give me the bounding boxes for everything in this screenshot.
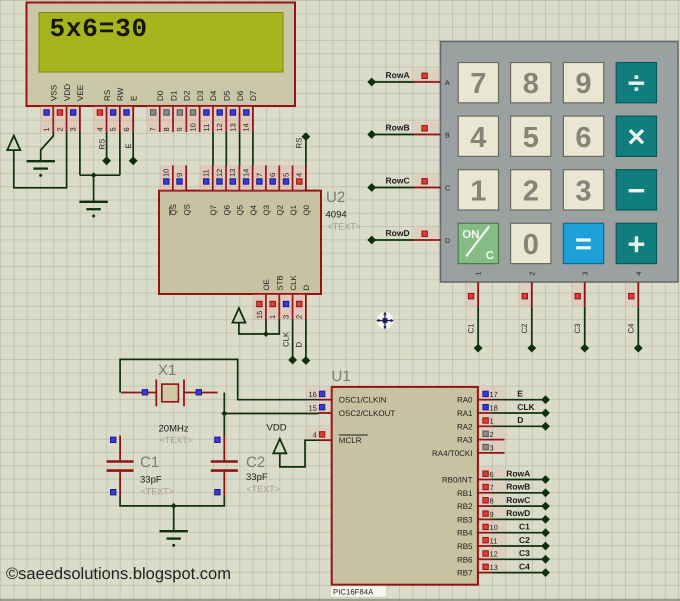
wire junction to ground [173, 506, 175, 531]
wire RS pin4 stub [106, 132, 108, 159]
U1 pin 10 RB4 (right) [457, 520, 505, 538]
wire E pin6 stub [132, 132, 134, 159]
LCD pin 4 RS [94, 89, 112, 132]
keypad column label 3 [582, 272, 589, 276]
wire net C1 from pin 10 [491, 532, 545, 534]
svg-text:8: 8 [162, 127, 171, 131]
sheet border bottom [0, 599, 680, 601]
keypad button × [616, 116, 656, 156]
svg-text:RA1: RA1 [457, 409, 473, 418]
node CLK terminal [541, 409, 550, 418]
svg-text:11: 11 [202, 124, 211, 132]
svg-text:5: 5 [523, 122, 539, 154]
label E net [124, 143, 133, 148]
U1 pin 15 OSC2/CLKOUT (left) [306, 400, 396, 418]
svg-text:VEE: VEE [76, 84, 85, 101]
wire LCD data to U2 at x=226.3 [225, 132, 227, 166]
svg-text:<TEXT>: <TEXT> [247, 484, 281, 494]
node RowD terminal [367, 236, 376, 245]
label C1 [467, 324, 476, 334]
crystal X1 [121, 380, 218, 407]
wire net RowC from pin 8 [491, 505, 545, 507]
U1 pin 16 OSC1/CLKIN (left) [306, 387, 387, 405]
U1 pin 9 RB3 (right) [457, 506, 505, 524]
wire net RowC [372, 187, 414, 189]
wire net C3 from pin 12 [491, 558, 545, 560]
svg-text:RB2: RB2 [457, 502, 473, 511]
C2 pin state squares [215, 437, 220, 442]
U2 pin 9 QS (top) [173, 165, 191, 216]
svg-text:RA3: RA3 [457, 436, 473, 445]
svg-text:QS: QS [182, 204, 191, 215]
label C2 [520, 324, 529, 334]
keypad button 8 [511, 63, 551, 103]
svg-text:5: 5 [281, 173, 290, 177]
wire net RowD [372, 239, 414, 241]
svg-text:C1: C1 [467, 324, 476, 334]
svg-text:RS: RS [295, 138, 304, 149]
ground for caps [160, 530, 188, 532]
svg-text:1: 1 [470, 175, 486, 207]
svg-text:Q3: Q3 [262, 205, 271, 215]
LCD pin 12 D5 [213, 90, 231, 132]
svg-text:OE: OE [262, 279, 271, 290]
junction ground bus [91, 172, 97, 178]
svg-text:D5: D5 [223, 90, 232, 101]
origin marker [376, 312, 393, 329]
svg-text:VDD: VDD [267, 423, 287, 434]
svg-text:12: 12 [215, 169, 224, 177]
svg-text:4094: 4094 [326, 210, 347, 221]
svg-text:7: 7 [255, 173, 264, 177]
svg-text:=: = [575, 229, 592, 261]
svg-text:2: 2 [529, 272, 536, 276]
svg-text:C3: C3 [573, 324, 582, 334]
wire net C2 [531, 307, 533, 348]
U1 pin 11 RB5 (right) [457, 533, 505, 551]
junction OE/STB [263, 331, 269, 337]
svg-text:MCLR: MCLR [339, 436, 362, 445]
svg-text:Q2: Q2 [276, 205, 285, 215]
svg-text:CLK: CLK [517, 402, 535, 412]
svg-text:1: 1 [490, 417, 494, 426]
svg-text:D0: D0 [156, 90, 165, 101]
LCD screen [39, 13, 283, 73]
svg-text:D: D [302, 285, 311, 291]
svg-text:<TEXT>: <TEXT> [160, 435, 194, 445]
svg-text:4: 4 [95, 127, 104, 131]
svg-text:1: 1 [476, 272, 483, 276]
svg-text:0: 0 [523, 229, 539, 261]
svg-text:6: 6 [575, 122, 591, 154]
svg-text:17: 17 [490, 390, 498, 399]
svg-text:4: 4 [636, 272, 643, 276]
keypad button = [563, 223, 603, 263]
keypad pin row RowC [414, 175, 441, 188]
wire junction to ground [93, 175, 95, 202]
svg-text:5x6=30: 5x6=30 [50, 14, 148, 44]
label PIC16F84A [331, 586, 387, 597]
svg-text:C3: C3 [519, 548, 530, 558]
svg-text:D7: D7 [249, 90, 258, 101]
keypad button ON/C [458, 223, 498, 263]
node C1 terminal [541, 528, 550, 537]
U2 pin 3 CLK (bottom) [280, 275, 298, 320]
label D net [295, 342, 304, 348]
svg-text:1: 1 [42, 127, 51, 131]
svg-text:15: 15 [308, 403, 316, 412]
keypad button 0 [511, 223, 551, 263]
node D terminal [541, 422, 550, 431]
svg-text:14: 14 [242, 123, 251, 131]
LCD pin 2 VDD [54, 84, 72, 132]
svg-text:−: − [627, 173, 645, 208]
wire VSS pin1 to ground [41, 132, 54, 161]
wire crystal left to OSC1 (top route) [120, 359, 318, 399]
wire net RowD from pin 9 [491, 518, 545, 520]
keypad column label 4 [636, 272, 643, 276]
U2 pin 7 Q3 (top) [253, 165, 271, 216]
svg-text:RB7: RB7 [457, 569, 473, 578]
svg-text:3: 3 [281, 315, 290, 319]
svg-text:13: 13 [228, 123, 237, 131]
wire LCD data to U2 at x=252.9 [252, 132, 254, 166]
svg-text:10: 10 [162, 169, 171, 177]
label RS net at U2 [295, 138, 304, 149]
wire VEE pin3 down [79, 132, 81, 175]
svg-text:C4: C4 [519, 561, 530, 571]
node C4 terminal [634, 344, 643, 353]
svg-text:C: C [445, 186, 450, 193]
svg-text:C1: C1 [140, 454, 159, 471]
LCD pin 9 D2 [173, 90, 191, 132]
node RowB terminal [541, 488, 550, 497]
svg-text:CLK: CLK [289, 275, 298, 291]
node D terminal [302, 356, 311, 365]
junction crystal right / OSC2 [221, 411, 227, 417]
wire net D from pin 1 [491, 425, 545, 427]
svg-text:D: D [517, 415, 523, 425]
svg-text:©saeedsolutions.blogspot.com: ©saeedsolutions.blogspot.com [6, 565, 231, 583]
svg-text:9: 9 [175, 127, 184, 131]
wire net C4 [637, 307, 639, 348]
keypad button 6 [563, 116, 603, 156]
wire U2 CLK down [292, 320, 294, 358]
svg-text:3: 3 [490, 443, 494, 452]
keypad pin row RowD [414, 227, 441, 240]
svg-text:QS: QS [169, 204, 178, 215]
svg-text:RowA: RowA [386, 70, 410, 80]
svg-text:E: E [517, 389, 523, 399]
wire net CLK from pin 18 [491, 412, 545, 414]
svg-text:D6: D6 [236, 90, 245, 101]
svg-text:11: 11 [490, 536, 498, 545]
svg-text:ON: ON [462, 229, 479, 241]
wire LCD data to U2 at x=239.6 [239, 132, 241, 166]
U1 pin 13 RB7 (right) [457, 560, 505, 578]
node RowD terminal [541, 515, 550, 524]
svg-text:CLK: CLK [282, 331, 291, 347]
svg-text:RB1: RB1 [457, 489, 473, 498]
svg-text:Q1: Q1 [289, 205, 298, 215]
svg-text:4: 4 [295, 173, 304, 177]
keypad button 2 [511, 170, 551, 210]
svg-text:RB0/INT: RB0/INT [442, 476, 473, 485]
label RS net [97, 139, 106, 150]
LCD pin 6 E [120, 95, 138, 132]
keypad button − [616, 170, 656, 210]
label CLK net [282, 331, 291, 347]
C1 pin state squares [111, 437, 116, 442]
keypad column label 2 [529, 272, 536, 276]
svg-text:20MHz: 20MHz [159, 424, 189, 435]
svg-text:RS: RS [103, 89, 112, 101]
svg-text:RowA: RowA [506, 468, 530, 478]
U1 pin 2 RA3 (right) [457, 427, 505, 445]
svg-text:C: C [486, 250, 494, 262]
svg-text:B: B [445, 133, 450, 140]
svg-text:D1: D1 [169, 90, 178, 101]
node RowA terminal [367, 78, 376, 87]
wire net C3 [584, 307, 586, 348]
svg-text:Q5: Q5 [236, 204, 245, 215]
svg-text:VSS: VSS [50, 84, 59, 101]
svg-text:RA0: RA0 [457, 396, 473, 405]
svg-text:A: A [445, 80, 450, 87]
keypad button 1 [458, 170, 498, 210]
wire U2 Q0 to RS terminal [305, 139, 307, 166]
svg-text:OSC2/CLKOUT: OSC2/CLKOUT [339, 409, 396, 418]
keypad button 4 [458, 116, 498, 156]
keypad button + [616, 223, 656, 263]
node C2 terminal [541, 542, 550, 551]
LCD pin 10 D3 [187, 90, 205, 132]
svg-text:9: 9 [490, 510, 494, 519]
U1 pin 4 MCLR (left) [306, 427, 368, 445]
LCD pin 1 VSS [40, 84, 58, 132]
U1 pin 1 RA2 (right) [457, 413, 505, 431]
ground for VEE/RW [79, 201, 107, 203]
svg-text:RB3: RB3 [457, 515, 473, 524]
node C3 terminal [541, 555, 550, 564]
microcontroller U1 body [332, 387, 478, 585]
svg-text:Q0: Q0 [302, 204, 311, 215]
keypad pin column C4 [625, 283, 638, 307]
wire net C2 from pin 11 [491, 545, 545, 547]
svg-text:OSC1/CLKIN: OSC1/CLKIN [339, 396, 387, 405]
U2 pin 15 OE (bottom) [253, 279, 271, 319]
svg-text:1: 1 [268, 315, 277, 319]
svg-text:2: 2 [55, 127, 64, 131]
svg-text:X1: X1 [158, 362, 176, 379]
U2 pin 4 Q0 (top) [293, 165, 311, 216]
svg-text:10: 10 [189, 123, 198, 131]
U1 pin 18 RA1 (right) [457, 400, 505, 418]
svg-text:7: 7 [490, 483, 494, 492]
LCD module LCD1 body [27, 3, 296, 107]
svg-text:RowC: RowC [386, 176, 410, 186]
keypad pin column C2 [519, 283, 532, 307]
keypad button ÷ [616, 63, 656, 103]
svg-text:33pF: 33pF [246, 472, 268, 483]
svg-text:D2: D2 [183, 90, 192, 101]
svg-text:RowB: RowB [386, 123, 410, 133]
keypad pin column C1 [465, 283, 478, 307]
wire VDD pin2 to power arrow [14, 132, 67, 188]
svg-text:13: 13 [490, 563, 498, 572]
U2 pin 12 Q6 (top) [213, 165, 231, 216]
svg-text:10: 10 [490, 523, 498, 532]
svg-text:13: 13 [228, 169, 237, 177]
svg-text:3: 3 [582, 272, 589, 276]
LCD pin 11 D4 [200, 90, 218, 132]
wire net E from pin 17 [491, 399, 545, 401]
wire crystal right down [223, 393, 225, 436]
node RS terminal at U2 [302, 132, 311, 141]
svg-text:12: 12 [490, 550, 498, 559]
keypad column label 1 [476, 272, 483, 276]
LCD pin 14 D7 [240, 90, 258, 132]
keypad pin row RowA [414, 69, 441, 82]
svg-text:RS: RS [97, 139, 106, 150]
LCD pin 8 D1 [160, 90, 178, 132]
wire OE down [265, 320, 267, 335]
svg-text:U2: U2 [326, 189, 345, 206]
svg-text:RB4: RB4 [457, 529, 473, 538]
svg-text:2: 2 [523, 175, 539, 207]
svg-text:RW: RW [116, 87, 125, 101]
wire OE/STB to power [239, 320, 279, 335]
svg-text:RowC: RowC [506, 495, 530, 505]
label C4 [627, 323, 636, 334]
svg-text:4: 4 [470, 122, 486, 154]
svg-text:D: D [445, 238, 450, 245]
svg-text:RA4/T0CKI: RA4/T0CKI [432, 449, 472, 458]
keypad button 5 [511, 116, 551, 156]
LCD pin 7 D0 [147, 90, 165, 132]
svg-text:11: 11 [202, 169, 211, 177]
svg-text:7: 7 [149, 127, 158, 131]
svg-text:6: 6 [122, 127, 131, 131]
svg-text:3: 3 [575, 175, 591, 207]
node RowC terminal [367, 183, 376, 192]
svg-text:16: 16 [308, 390, 316, 399]
U1 pin 7 RB1 (right) [457, 480, 505, 498]
svg-text:D: D [295, 342, 304, 348]
svg-text:8: 8 [490, 497, 494, 506]
svg-text:5: 5 [109, 127, 118, 131]
keypad button 3 [563, 170, 603, 210]
node RowC terminal [541, 502, 550, 511]
wire U2 D down [305, 320, 307, 359]
svg-text:C2: C2 [520, 324, 529, 334]
svg-text:7: 7 [470, 68, 486, 100]
ground for VSS [27, 160, 55, 162]
U2 pin 11 Q7 (top) [200, 165, 218, 216]
svg-text:×: × [627, 119, 645, 154]
svg-text:Q4: Q4 [249, 204, 258, 215]
svg-text:C4: C4 [627, 323, 636, 334]
U2 pin 5 Q1 (top) [280, 165, 298, 216]
U2 pin 1 STB (bottom) [266, 275, 284, 319]
svg-text:14: 14 [242, 169, 251, 177]
wire net C1 [477, 307, 479, 348]
U1 pin 6 RB0/INT (right) [442, 467, 505, 485]
capacitor C2 [211, 436, 238, 497]
svg-text:8: 8 [523, 68, 539, 100]
keypad button 7 [458, 63, 498, 103]
svg-text:U1: U1 [332, 368, 351, 385]
wire RW pin5 down [119, 132, 121, 175]
svg-text:RowD: RowD [386, 228, 410, 238]
svg-text:D4: D4 [209, 90, 218, 101]
node RowA terminal [541, 475, 550, 484]
U2 pin 10 QS (top) [160, 165, 178, 216]
svg-text:VDD: VDD [63, 84, 72, 101]
U1 pin 17 RA0 (right) [457, 387, 505, 405]
U1 pin 3 RA4/T0CKI (right) [432, 440, 505, 458]
svg-text:RA2: RA2 [457, 422, 473, 431]
svg-text:18: 18 [490, 403, 498, 412]
U1 pin 12 RB6 (right) [457, 546, 505, 564]
svg-text:<TEXT>: <TEXT> [328, 222, 362, 232]
svg-text:RowD: RowD [506, 508, 530, 518]
power arrow VDD [273, 439, 286, 454]
svg-text:C2: C2 [519, 535, 530, 545]
capacitor C1 [107, 436, 134, 497]
node E terminal [541, 395, 550, 404]
svg-text:<TEXT>: <TEXT> [141, 487, 175, 497]
svg-text:C2: C2 [246, 454, 265, 471]
node CLK terminal [288, 356, 297, 365]
U2 pin 14 Q4 (top) [240, 165, 258, 216]
keypad button 9 [563, 63, 603, 103]
power arrow for OE/STB [232, 308, 245, 323]
keypad pin column C3 [571, 283, 584, 307]
svg-text:RowB: RowB [506, 482, 530, 492]
svg-text:+: + [627, 227, 645, 262]
wire VEE-RW ground bus [80, 174, 120, 176]
node C3 terminal [580, 344, 589, 353]
U2 pin 2 D (bottom) [293, 285, 311, 320]
crystal pin state squares [142, 390, 147, 395]
svg-text:4: 4 [313, 431, 317, 440]
LCD pin 5 RW [107, 87, 125, 132]
wire VDD to MCLR [280, 440, 319, 467]
svg-text:÷: ÷ [628, 66, 645, 101]
wire net C4 from pin 13 [491, 572, 545, 574]
wire net RowA from pin 6 [491, 479, 545, 481]
U1 pin 8 RB2 (right) [457, 493, 505, 511]
svg-text:6: 6 [490, 470, 494, 479]
shift register U2 body [159, 191, 321, 294]
power arrow VDD (top-left) [7, 136, 20, 151]
svg-text:6: 6 [268, 173, 277, 177]
wire net RowA [372, 81, 414, 83]
keypad panel [441, 42, 679, 283]
svg-text:3: 3 [69, 127, 78, 131]
node E terminal [129, 156, 138, 165]
svg-text:9: 9 [575, 68, 591, 100]
U2 pin 6 Q2 (top) [266, 165, 284, 216]
junction bottom bus [171, 503, 177, 509]
svg-text:D3: D3 [196, 90, 205, 101]
U2 pin 13 Q5 (top) [226, 165, 244, 216]
node RS terminal [102, 156, 111, 165]
svg-text:2: 2 [295, 315, 304, 319]
wire C1 bottom bus [120, 497, 224, 506]
svg-text:E: E [129, 95, 138, 101]
